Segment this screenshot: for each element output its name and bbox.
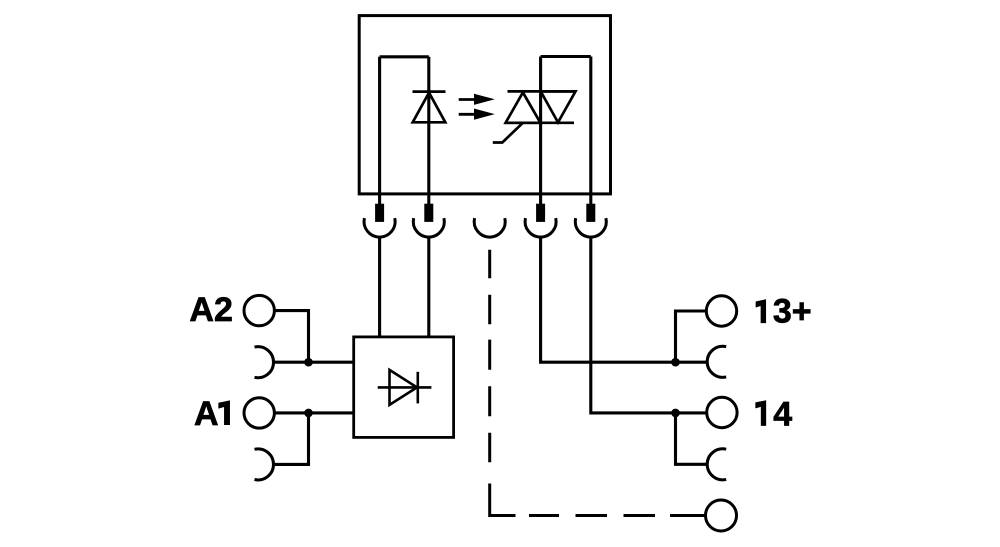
triac output element <box>493 91 576 142</box>
wire: 13+ circle to node <box>676 311 707 362</box>
plug pin 4 <box>539 194 542 207</box>
junction node <box>304 409 313 418</box>
wire: down to plug 5 <box>589 57 592 194</box>
wire: socket A1 up to node <box>273 413 309 465</box>
socket contact 3 <box>474 218 505 237</box>
junction node <box>671 358 680 367</box>
plug pin 1 <box>378 194 381 207</box>
wire: plug 1 to rectifier box <box>378 237 381 337</box>
wire: plug 2 to rectifier box <box>427 237 430 337</box>
label 14 <box>756 401 766 426</box>
socket A2 <box>255 347 274 378</box>
plug pin 2 <box>427 194 430 207</box>
label 13+ <box>756 300 766 323</box>
wire: dashed, socket 3 to bottom terminal <box>490 250 706 516</box>
light emission arrows <box>459 94 495 120</box>
socket contact 2 <box>413 218 444 237</box>
socket 14 <box>707 449 726 480</box>
bottom terminal circle <box>706 500 737 531</box>
socket A1 <box>255 449 274 480</box>
wire: plug 1 riser inside box <box>378 57 381 194</box>
wire: socket A2 to rectifier box <box>273 361 354 364</box>
wire: A1 to rectifier box <box>274 411 353 414</box>
svg-text:3+: 3+ <box>773 292 812 330</box>
socket contact 4 <box>525 218 556 237</box>
rectifier box <box>354 337 454 438</box>
optocoupler module box U1 <box>359 16 610 194</box>
junction node <box>671 409 680 418</box>
svg-text:A2: A2 <box>189 291 232 329</box>
LED emitter diode <box>413 92 446 123</box>
socket contact 5 <box>575 218 606 237</box>
wire: top loop left <box>380 55 429 58</box>
terminal circle 14 <box>707 397 737 427</box>
wire: top loop right <box>541 55 591 58</box>
svg-text:A: A <box>194 395 219 433</box>
wire: through LED down to plug 2 <box>427 57 430 194</box>
wire: plug 5 down and right to circle 14 <box>591 237 707 413</box>
socket 13+ <box>707 346 726 377</box>
wire: plug 4 down and right to socket 13 <box>541 237 708 362</box>
plug pin 5 <box>589 194 592 207</box>
wire: plug 4 riser through triac <box>539 57 542 194</box>
svg-text:4: 4 <box>773 395 792 433</box>
terminal circle 13+ <box>706 296 736 326</box>
terminal circle A2 <box>244 295 274 325</box>
socket contact 1 <box>364 218 395 237</box>
wire: node down to socket 14 <box>676 413 708 464</box>
diode inside rectifier <box>378 370 432 405</box>
junction node <box>304 358 313 367</box>
wire: A2 to node <box>274 311 308 363</box>
terminal circle A1 <box>244 398 274 428</box>
